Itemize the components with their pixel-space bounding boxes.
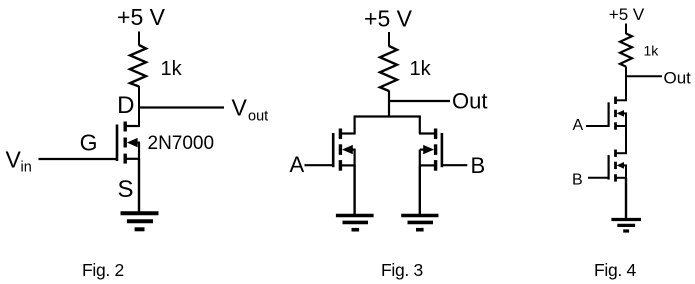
Q2 drain lead — [341, 132, 356, 134]
Q4 body lead — [623, 112, 627, 114]
Q1 body arrow — [127, 138, 138, 147]
wire source of Q2 to ground — [353, 165, 355, 214]
svg-text:Out: Out — [452, 89, 487, 114]
svg-text:+5 V: +5 V — [364, 6, 413, 32]
Q3 channel segment body — [434, 144, 437, 155]
svg-text:2N7000: 2N7000 — [148, 133, 215, 154]
svg-text:A: A — [573, 117, 584, 134]
transistor Q5 NMOS (Fig.4 bottom, input B) — [609, 150, 627, 182]
wire rail to drain of Q3 — [419, 117, 421, 134]
svg-text:D: D — [117, 92, 134, 119]
node Out label (Fig.4) — [664, 69, 692, 88]
caption Fig. 2 — [82, 260, 124, 280]
svg-text:1k: 1k — [161, 58, 183, 80]
wire source of Q4 to drain of Q5 — [625, 126, 627, 153]
svg-text:Out: Out — [664, 69, 692, 88]
value label 1k (Fig.4) — [644, 43, 660, 59]
svg-text:1k: 1k — [410, 58, 432, 80]
Q2 channel segment source — [339, 160, 342, 171]
Q4 body-source vertical — [625, 113, 627, 126]
Q3 gate bar — [441, 133, 444, 167]
svg-text:Fig. 4: Fig. 4 — [594, 260, 637, 280]
Q2 body arrow — [342, 145, 353, 154]
wire source of Q5 to ground — [625, 178, 627, 219]
input label A (Fig.4) — [573, 117, 584, 134]
ground symbol (Fig.3 right) — [401, 216, 438, 230]
svg-text:B: B — [471, 153, 486, 178]
power +5V label (Fig.4) — [609, 5, 645, 24]
Q5 gate bar — [607, 155, 609, 180]
value label 1k (Fig.2) — [161, 58, 183, 80]
svg-text:S: S — [118, 176, 134, 203]
ground symbol (Fig.2) — [121, 213, 159, 229]
svg-text:+5 V: +5 V — [117, 4, 166, 30]
Q3 drain lead — [419, 132, 435, 134]
wire input B to gate of Q5 — [588, 177, 609, 179]
wire from +5V to resistor R1 — [138, 32, 140, 46]
pin label S — [118, 176, 134, 203]
svg-text:A: A — [290, 152, 305, 177]
transistor Q2 NMOS (Fig.3 left, input A) — [333, 129, 355, 171]
wire rail to drain of Q2 — [354, 117, 356, 134]
Q4 source lead — [616, 125, 627, 127]
Q1 body-source vertical — [138, 143, 140, 159]
Q4 drain lead — [616, 99, 627, 101]
wire drain rail — [354, 115, 421, 117]
wire gate of Q3 to input B — [442, 164, 467, 166]
Q4 gate bar — [607, 102, 609, 127]
wire input A to gate of Q4 — [586, 125, 609, 127]
Q5 source lead — [616, 177, 627, 179]
Q5 channel segment drain — [614, 150, 617, 157]
Q5 drain lead — [616, 152, 627, 154]
Q3 source lead — [419, 164, 435, 166]
transistor Q3 NMOS (Fig.3 right, input B, mirrored) — [419, 129, 442, 171]
node D / wire drain to Vout — [138, 106, 224, 108]
wire resistor to drain of Q4 — [625, 67, 627, 102]
wire input A to gate of Q2 — [305, 164, 334, 166]
ground symbol (Fig.4) — [611, 220, 641, 232]
node Vin label — [6, 147, 32, 176]
wire source of Q3 to ground — [419, 165, 421, 214]
Q2 channel segment drain — [339, 129, 342, 140]
Q4 body arrow — [617, 110, 624, 117]
Q3 channel segment source — [434, 160, 437, 171]
Q4 channel segment source — [614, 122, 617, 129]
Q2 channel segment body — [339, 144, 342, 155]
Q1 source lead — [126, 158, 140, 160]
svg-text:Fig. 3: Fig. 3 — [381, 260, 423, 280]
svg-text:Fig. 2: Fig. 2 — [82, 260, 124, 280]
Q1 body lead — [136, 142, 140, 144]
wire from +5V to resistor R2 — [388, 32, 390, 47]
ground symbol (Fig.3 left) — [336, 216, 374, 230]
resistor R3 1k (Fig.4) — [620, 34, 632, 67]
wire resistor to drain of Q1 — [138, 86, 140, 127]
transistor Q4 NMOS (Fig.4 top, input A) — [609, 97, 627, 130]
Q3 body lead — [420, 149, 425, 151]
node Out label (Fig.3) — [452, 89, 487, 114]
Q3 channel segment drain — [434, 129, 437, 140]
svg-text:B: B — [572, 172, 583, 189]
Q1 gate bar — [116, 125, 119, 162]
wire source of Q1 to ground — [138, 159, 140, 213]
node Vout label — [232, 95, 269, 125]
svg-text:G: G — [80, 130, 98, 156]
resistor R2 1k (Fig.3) — [380, 46, 397, 91]
pin label G — [80, 130, 98, 156]
svg-text:+5 V: +5 V — [609, 5, 645, 24]
input label A (Fig.3) — [290, 152, 305, 177]
transistor Q1 2N7000 NMOS (Fig.2) — [117, 122, 140, 164]
caption Fig. 4 — [594, 260, 637, 280]
Q5 channel segment body — [614, 162, 617, 169]
Q2 source lead — [341, 164, 356, 166]
Q4 channel segment body — [614, 110, 617, 117]
Q5 channel segment source — [614, 174, 617, 181]
wire node to Out (Fig.4) — [625, 75, 662, 77]
svg-text:V: V — [232, 95, 248, 121]
pin label D — [117, 92, 134, 119]
input label B (Fig.4) — [572, 172, 583, 189]
Q2 body-source vertical — [354, 150, 356, 166]
Q1 channel segment body — [123, 138, 126, 148]
wire Vin to gate of Q1 — [39, 158, 117, 160]
svg-text:1k: 1k — [644, 43, 660, 59]
wire node to Out — [388, 100, 450, 102]
Q1 drain lead — [126, 125, 140, 127]
Q5 body arrow — [617, 162, 624, 169]
Q1 channel segment drain — [123, 122, 126, 132]
Q2 gate bar — [332, 133, 335, 167]
resistor R1 1k (Fig.2) — [130, 45, 146, 87]
Q5 body-source vertical — [625, 165, 627, 177]
input label B (Fig.3) — [471, 153, 486, 178]
part label 2N7000 — [148, 133, 215, 154]
Q4 channel segment drain — [614, 97, 617, 104]
power +5V label (Fig.2) — [117, 4, 166, 30]
Q5 body lead — [623, 164, 627, 166]
svg-text:out: out — [248, 109, 268, 125]
Q1 channel segment source — [123, 154, 126, 164]
Q3 body-source vertical — [419, 150, 421, 166]
wire from +5V to resistor R3 — [625, 24, 627, 35]
caption Fig. 3 — [381, 260, 423, 280]
svg-text:V: V — [6, 147, 22, 173]
Q3 body arrow — [423, 145, 434, 154]
Q2 body lead — [351, 149, 356, 151]
svg-text:in: in — [21, 160, 32, 176]
wire resistor to rail — [388, 91, 390, 118]
value label 1k (Fig.3) — [410, 58, 432, 80]
power +5V label (Fig.3) — [364, 6, 413, 32]
